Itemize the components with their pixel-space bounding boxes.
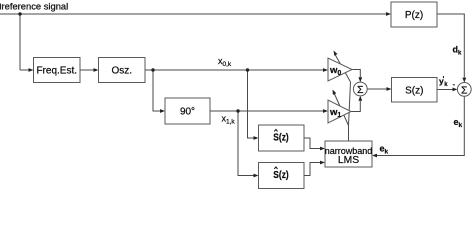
svg-text:Osz.: Osz. — [111, 66, 132, 77]
wire left vertical drop — [19, 14, 21, 70]
arrowhead up into summer 1 — [358, 96, 362, 101]
arrowhead weight update w0 — [334, 51, 338, 56]
arrowhead into Osz. — [94, 68, 99, 72]
wire w1 output to summer 1 — [351, 101, 360, 112]
arrowhead into S-hat 2 — [254, 174, 259, 178]
summer 2 circle — [457, 83, 471, 97]
arrowhead into 90 deg block — [160, 109, 165, 113]
wire summer 1 to S(z) — [367, 88, 387, 90]
wire S(z) to summer 2 — [437, 89, 453, 91]
summer 1 circle — [353, 82, 367, 96]
arrowhead into P(z) — [386, 12, 391, 16]
wire S-hat 2 output to LMS — [304, 163, 321, 176]
multiplier w1 triangle — [328, 100, 351, 123]
wire LMS up weight update trunk — [348, 126, 350, 142]
svg-text:reference signal: reference signal — [2, 0, 69, 11]
multiplier w0 triangle — [328, 58, 352, 81]
arrowhead down into summer 1 — [358, 77, 362, 82]
arrowhead into LMS right edge (e_k) — [372, 154, 377, 158]
svg-text:S(z): S(z) — [273, 132, 288, 144]
block Freq.Est. — [34, 58, 81, 83]
arrowhead down into summer 2 — [462, 78, 466, 83]
arrowhead into S(z) — [387, 87, 392, 91]
arrowhead into LMS input 2 — [320, 161, 325, 165]
node junction x1 branch — [236, 109, 239, 112]
node junction after Osz. — [151, 68, 154, 71]
svg-text:LMS: LMS — [338, 155, 359, 166]
arrowhead into w1 — [323, 109, 328, 113]
arrowhead into Freq.Est. — [29, 68, 34, 72]
svg-text:Σ: Σ — [357, 84, 364, 96]
svg-text:S(z): S(z) — [405, 86, 423, 97]
arrowhead into w0 — [323, 68, 328, 72]
block 90 deg — [165, 98, 210, 124]
wire weight update riser to w0 — [349, 82, 351, 126]
block S-hat 2 — [259, 163, 305, 189]
wire summer 2 down and left to LMS (e_k) — [377, 96, 464, 155]
block narrowband LMS — [325, 141, 372, 167]
wire x1 branch down to S-hat 2 — [238, 111, 254, 176]
block S(z) — [392, 78, 438, 103]
block Osz. — [99, 58, 146, 83]
arrowhead weight update w1 — [333, 90, 337, 95]
wire P(z) to summer 2 (d_k) — [437, 14, 464, 78]
block S-hat 1 — [259, 125, 305, 151]
node junction on reference line — [18, 12, 21, 15]
block P(z) — [391, 2, 437, 27]
svg-text:S(z): S(z) — [273, 169, 288, 181]
wire weight update diagonal to w1 — [333, 92, 348, 126]
wire x0 branch down to S-hat 1 — [248, 70, 255, 138]
arrowhead into S-hat 1 — [254, 136, 259, 140]
wire weight update diagonal to w0 — [335, 54, 351, 83]
wire x0 main line — [145, 69, 324, 71]
wire down to 90 deg block — [153, 70, 161, 111]
wire Freq.Est. to Osz. — [80, 69, 94, 71]
svg-text:Freq.Est.: Freq.Est. — [36, 66, 77, 77]
svg-text:Σ: Σ — [461, 84, 468, 96]
label S-hat 1 caret — [274, 129, 277, 131]
arrowhead into summer 2 from left — [453, 88, 458, 92]
wire x1 line — [210, 110, 324, 112]
wire reference signal top line — [0, 13, 386, 15]
svg-text:P(z): P(z) — [405, 10, 423, 21]
label reference signal clipped glyph at edge — [0, 4, 1, 10]
wire w0 output to summer 1 — [352, 70, 360, 78]
wire into Freq.Est. — [20, 69, 29, 71]
arrowhead into LMS input 1 — [320, 147, 325, 151]
svg-text:90°: 90° — [180, 107, 195, 118]
node junction x0 branch — [246, 68, 249, 71]
label S-hat 2 caret — [274, 167, 277, 169]
svg-text:-: - — [453, 80, 456, 89]
wire S-hat 1 output to LMS — [304, 138, 321, 149]
